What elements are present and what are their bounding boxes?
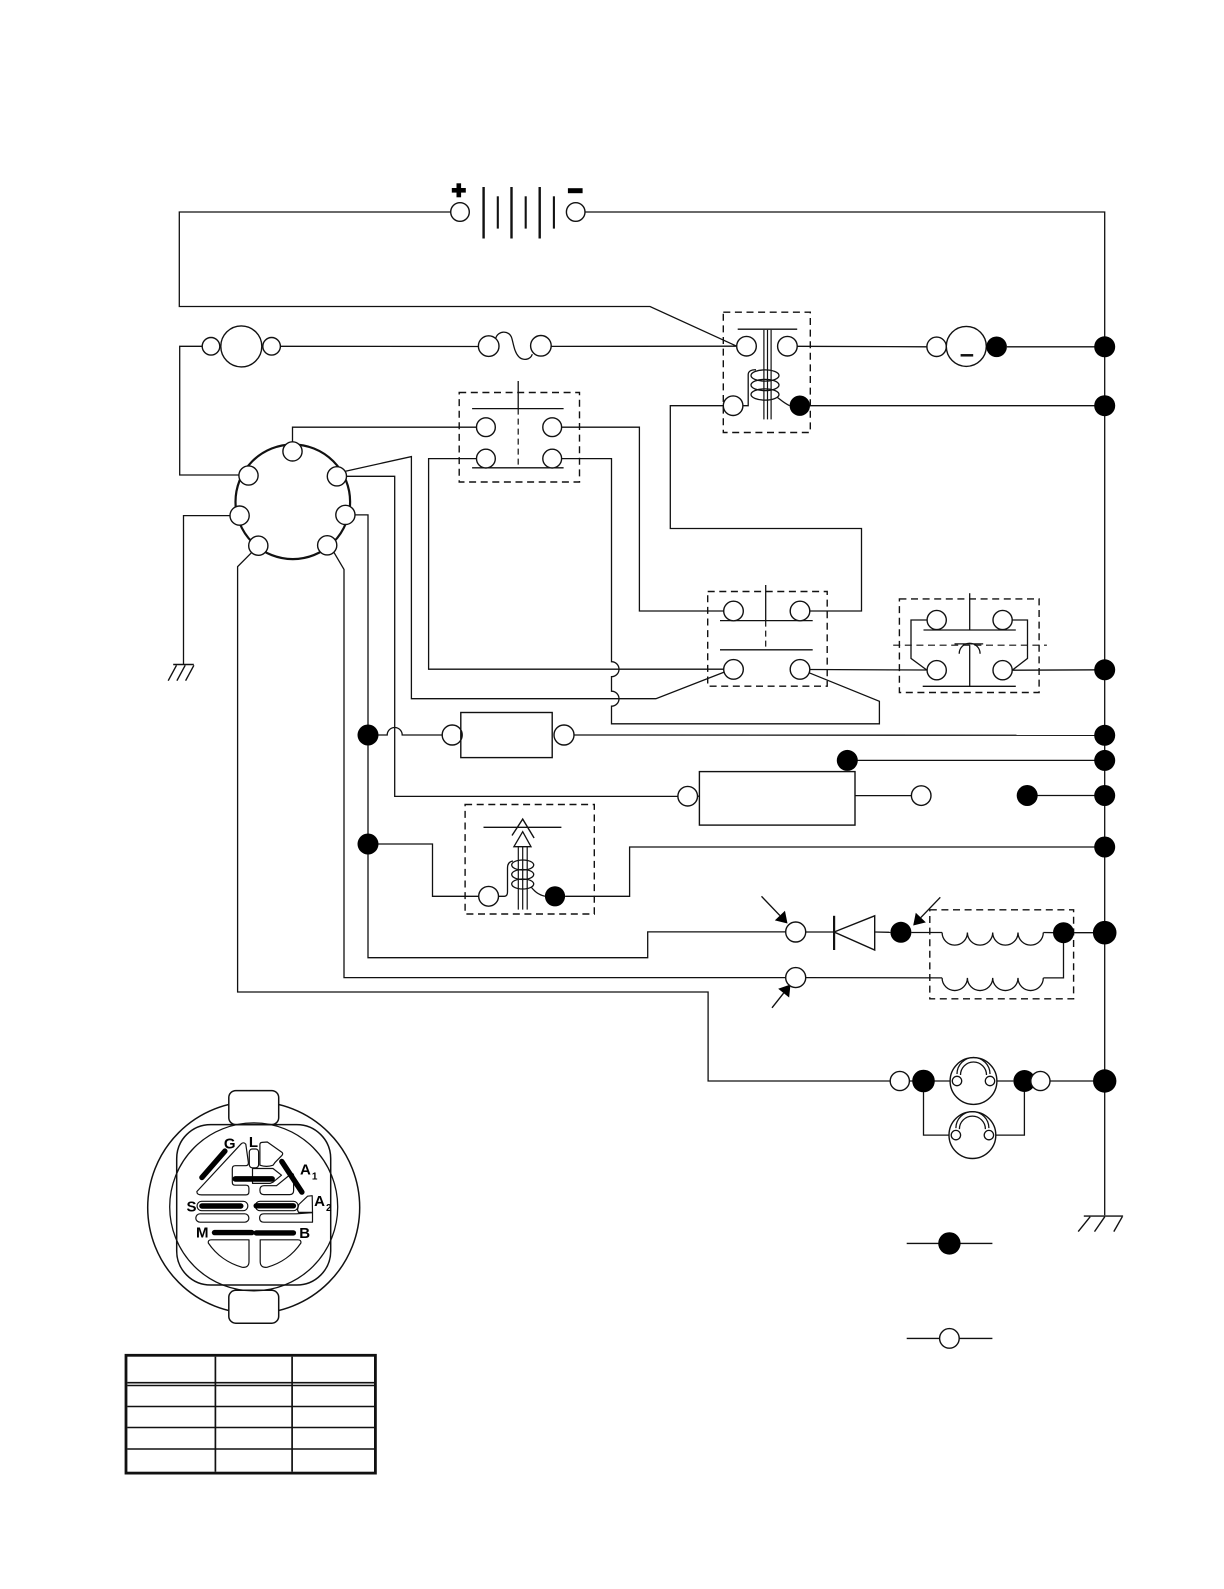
svg-text:A: A — [300, 1162, 311, 1179]
svg-text:A: A — [314, 1193, 325, 1210]
svg-text:M: M — [196, 1224, 209, 1241]
svg-text:1: 1 — [312, 1172, 318, 1183]
svg-text:2: 2 — [326, 1203, 332, 1214]
svg-text:L: L — [249, 1134, 258, 1151]
svg-text:S: S — [186, 1199, 196, 1216]
svg-text:G: G — [224, 1135, 236, 1152]
svg-text:B: B — [299, 1225, 310, 1242]
